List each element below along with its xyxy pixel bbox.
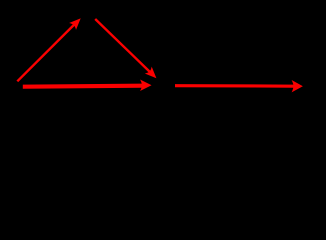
wire: shaft of vector a xyxy=(17,23,76,81)
wire: shaft of vector b xyxy=(95,19,150,73)
equals-sign vector (right horizontal arrow) xyxy=(175,81,302,91)
arrowhead of vector b (tip down-right) xyxy=(146,68,155,77)
vector a (up-right diagonal arrow, left side of triangle) xyxy=(17,19,80,81)
vector a+b (thick horizontal resultant arrow, base of triangle) xyxy=(23,81,151,90)
wire: shaft of resultant xyxy=(23,84,143,89)
wire: shaft of right vector xyxy=(175,84,294,88)
arrowhead of vector a (tip up-right) xyxy=(71,19,80,28)
vector b (down-right diagonal arrow, right side of triangle) xyxy=(95,19,155,77)
arrowhead of resultant (tip right) xyxy=(141,81,150,90)
arrowhead of right vector (tip right) xyxy=(293,81,302,91)
